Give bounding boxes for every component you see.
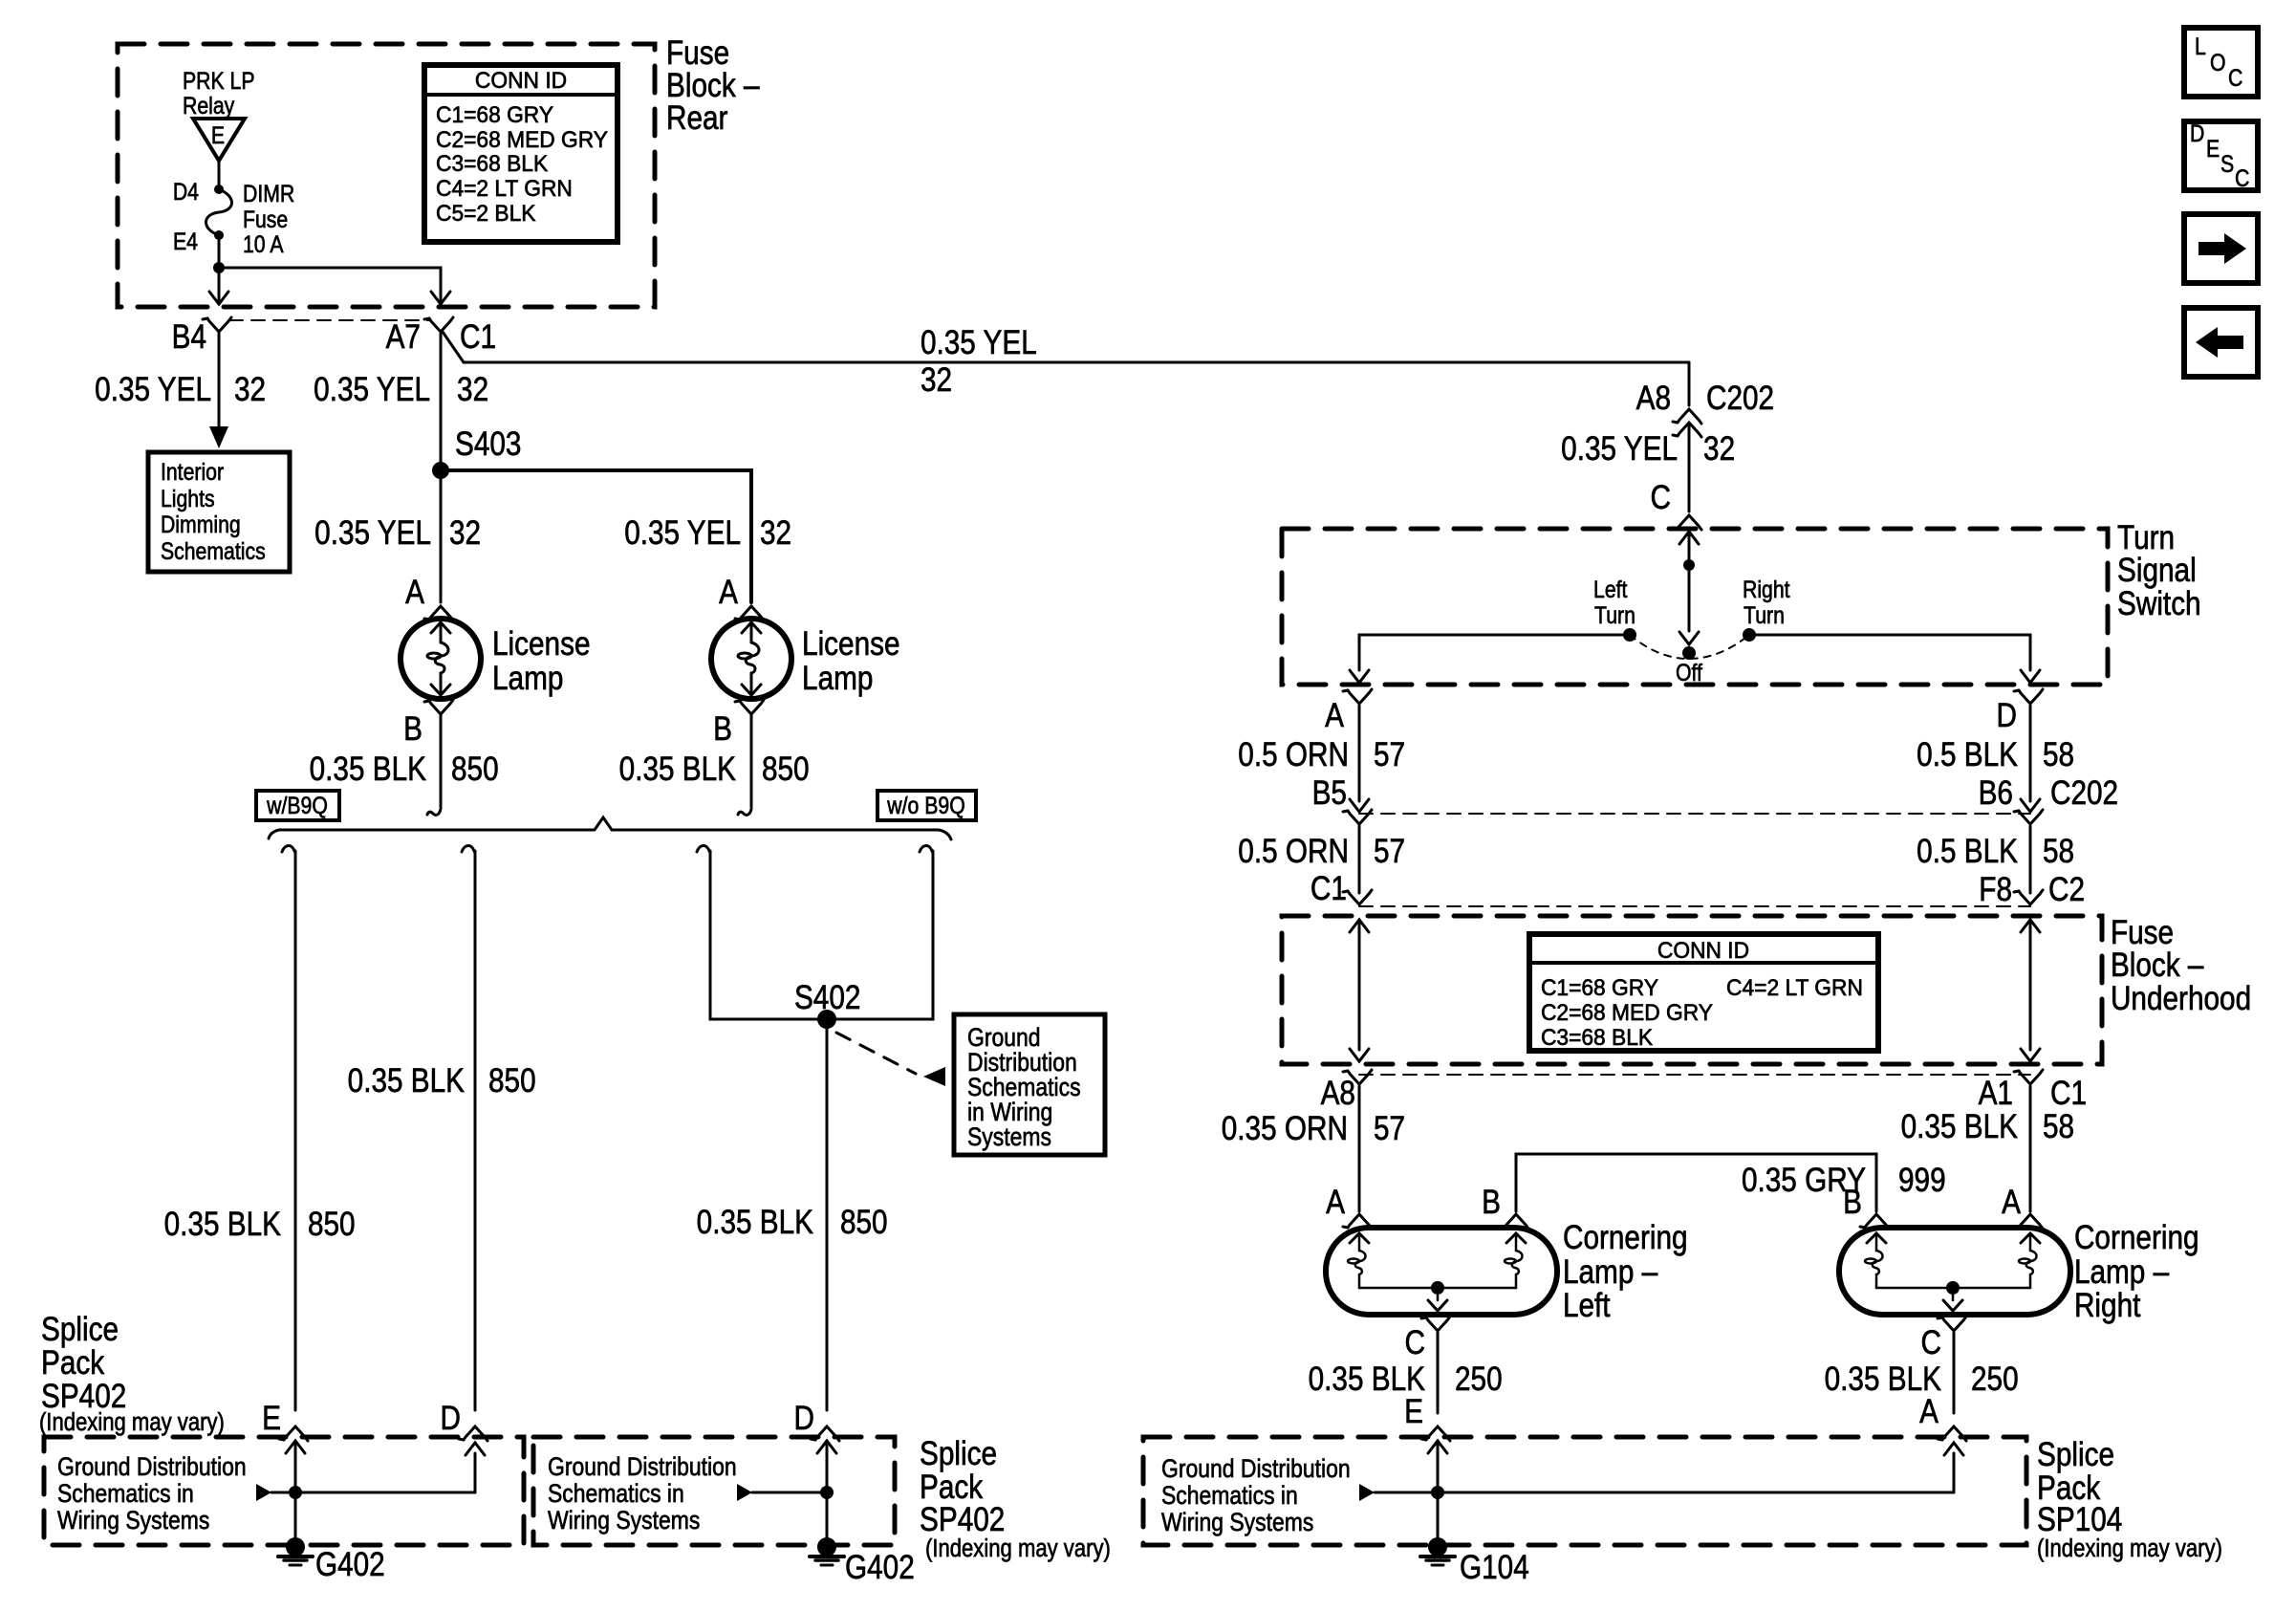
- wire w/o B9Q right branch to S402: [920, 846, 933, 853]
- chevron A8 below underhood: [1348, 1070, 1372, 1084]
- svg-text:C4=2 LT GRN: C4=2 LT GRN: [436, 175, 573, 201]
- wire B6 to C2 (fuse block underhood): [2029, 826, 2032, 893]
- svg-text:D: D: [2190, 120, 2204, 146]
- svg-text:G402: G402: [845, 1549, 915, 1586]
- pin A chevron (right box): [1942, 1426, 1966, 1441]
- svg-text:A: A: [719, 574, 738, 611]
- svg-text:250: 250: [1971, 1361, 2019, 1398]
- svg-text:Lights: Lights: [161, 485, 215, 512]
- svg-text:0.35 BLK: 0.35 BLK: [1825, 1361, 1942, 1398]
- ground distribution box middle (dashed): [533, 1437, 895, 1545]
- svg-text:C1: C1: [1310, 870, 1347, 907]
- wire cornering lamp B to B (gray): [1516, 1154, 1876, 1211]
- icon box LOC: [2184, 28, 2258, 97]
- label Splice Pack SP402 (middle): [920, 1435, 1111, 1563]
- svg-text:D: D: [441, 1400, 461, 1437]
- wire label 0.35 GRY 999: [1742, 1162, 1946, 1199]
- pin D chevron (middle box): [815, 1426, 839, 1441]
- splice S403: [432, 462, 449, 479]
- wire label 0.35 ORN 57: [1222, 1110, 1405, 1147]
- svg-text:32: 32: [457, 371, 488, 408]
- callout dashed pointer from S402: [836, 1033, 916, 1074]
- svg-text:E4: E4: [173, 228, 198, 254]
- splice S402: [817, 1010, 836, 1029]
- svg-text:CONN ID: CONN ID: [475, 67, 567, 93]
- wire lamp1 B down: [440, 714, 443, 807]
- switch wire right to D: [1749, 635, 2030, 670]
- svg-text:O: O: [2210, 49, 2226, 76]
- svg-text:F8: F8: [1979, 871, 2012, 908]
- svg-text:Lamp: Lamp: [492, 660, 563, 697]
- wire A1 to cornering lamp right A: [2029, 1086, 2032, 1211]
- cornering lamp right filament: [2021, 1233, 2040, 1243]
- svg-text:850: 850: [308, 1206, 356, 1243]
- svg-text:250: 250: [1455, 1361, 1503, 1398]
- svg-text:Left: Left: [1593, 576, 1628, 602]
- contact Right Turn: [1743, 628, 1756, 642]
- svg-text:Ground Distribution: Ground Distribution: [548, 1452, 737, 1481]
- wire w/o B9Q left branch to S402: [697, 846, 710, 853]
- svg-text:0.35 ORN: 0.35 ORN: [1222, 1110, 1348, 1147]
- svg-text:0.35 YEL: 0.35 YEL: [314, 371, 430, 408]
- label License Lamp 2: [802, 625, 900, 697]
- wire label 0.5 ORN 57 (lower): [1238, 833, 1405, 870]
- wire B5 to C1 (fuse block underhood): [1358, 826, 1361, 893]
- svg-text:Schematics in: Schematics in: [57, 1479, 194, 1508]
- svg-text:Splice: Splice: [2037, 1436, 2114, 1473]
- wire cornering left C down: [1437, 1333, 1440, 1413]
- svg-text:S403: S403: [455, 425, 521, 463]
- svg-text:0.35 YEL: 0.35 YEL: [624, 514, 741, 552]
- wire label 0.35 BLK 58: [1901, 1108, 2074, 1145]
- pin label B6 and connector C202: [1979, 774, 2118, 812]
- svg-text:C1=68 GRY: C1=68 GRY: [436, 101, 553, 127]
- svg-text:58: 58: [2043, 1108, 2074, 1145]
- wire C entering switch: [1679, 532, 1699, 544]
- wire label 0.35 BLK 250 (right): [1825, 1361, 2019, 1398]
- switch common arrow toward Off: [1688, 565, 1691, 631]
- label Fuse Block - Rear: [666, 34, 760, 137]
- ground distribution box right (dashed): [1143, 1437, 2026, 1545]
- ground G402 (left): [286, 1537, 305, 1557]
- svg-text:C202: C202: [1706, 380, 1774, 417]
- svg-text:58: 58: [2043, 833, 2074, 870]
- svg-text:Switch: Switch: [2117, 585, 2201, 622]
- svg-text:License: License: [802, 625, 900, 663]
- svg-text:B: B: [1843, 1184, 1862, 1221]
- svg-text:0.35 YEL: 0.35 YEL: [314, 514, 431, 552]
- svg-text:w/o B9Q: w/o B9Q: [886, 792, 964, 818]
- wire label 0.35 YEL 32 (lamp 2): [624, 514, 791, 552]
- pin A chevron cornering left: [1348, 1214, 1372, 1229]
- svg-text:Signal: Signal: [2117, 552, 2197, 589]
- svg-text:32: 32: [1703, 430, 1735, 468]
- svg-text:0.35 YEL: 0.35 YEL: [1561, 430, 1678, 468]
- svg-text:B6: B6: [1979, 774, 2013, 812]
- pin D chevron below switch: [2019, 689, 2043, 704]
- svg-text:Underhood: Underhood: [2111, 980, 2251, 1017]
- wire A down to C202 row: [1358, 706, 1361, 801]
- wire A8 to cornering lamp left A: [1358, 1086, 1361, 1211]
- svg-text:B: B: [1482, 1184, 1501, 1221]
- wire w/B9Q to splice pack E: [282, 846, 295, 853]
- label Cornering Lamp - Right: [2074, 1219, 2199, 1324]
- pin B chevron lamp 2: [740, 700, 764, 714]
- svg-text:Right: Right: [2074, 1287, 2140, 1324]
- wire long yellow feed down to C202: [1688, 362, 1691, 405]
- svg-text:Left: Left: [1563, 1287, 1611, 1324]
- svg-text:A: A: [405, 574, 424, 611]
- turn signal switch dashed outline: [1282, 529, 2108, 685]
- svg-text:10 A: 10 A: [243, 230, 284, 257]
- svg-text:A: A: [1919, 1393, 1939, 1430]
- wire label 0.35 YEL 32 (B4): [95, 371, 266, 408]
- svg-text:Schematics: Schematics: [161, 537, 266, 564]
- wire label 0.35 BLK 850 (S402 wire): [697, 1204, 888, 1241]
- wire E inside left box: [286, 1441, 305, 1453]
- cornering lamp right filament: [1867, 1233, 1886, 1243]
- svg-text:0.5 BLK: 0.5 BLK: [1917, 833, 2018, 870]
- svg-text:DIMR: DIMR: [243, 180, 294, 207]
- cornering lamp left common rail: [1359, 1287, 1516, 1290]
- label License Lamp 1: [492, 625, 591, 697]
- svg-text:Fuse: Fuse: [666, 34, 729, 72]
- chevron below C202 row left: [1348, 810, 1372, 824]
- arrowhead at B4 exit: [218, 292, 221, 304]
- wire label 0.35 BLK 250 (left): [1309, 1361, 1503, 1398]
- svg-text:Block –: Block –: [2111, 947, 2204, 984]
- svg-text:D: D: [1997, 697, 2017, 734]
- svg-text:B5: B5: [1312, 774, 1347, 812]
- svg-text:E: E: [1404, 1393, 1423, 1430]
- svg-text:Cornering: Cornering: [2074, 1219, 2199, 1256]
- wire C202 to turn signal switch: [1688, 425, 1691, 512]
- pin label F8 and connector C2: [1979, 871, 2085, 908]
- cornering lamp right common rail: [1876, 1287, 2030, 1290]
- wire label 0.35 BLK 850 (lamp1): [310, 751, 499, 788]
- connector chevron at B4: [207, 317, 231, 332]
- svg-text:G402: G402: [315, 1546, 385, 1583]
- pin D chevron (left box): [464, 1426, 487, 1441]
- svg-text:Lamp –: Lamp –: [1563, 1253, 1658, 1291]
- wire cornering right C down: [1953, 1333, 1956, 1413]
- svg-text:SP104: SP104: [2037, 1501, 2122, 1538]
- connector line C1 (thin dashed between B4 and A7): [229, 319, 430, 321]
- pin C chevron cornering right: [1942, 1317, 1966, 1331]
- ground distribution box left (dashed): [44, 1437, 524, 1545]
- svg-text:0.35 BLK: 0.35 BLK: [310, 751, 427, 788]
- wire A7 elbow to long yellow feed: [443, 332, 1689, 362]
- cornering lamp right body: [1839, 1228, 2070, 1315]
- svg-text:0.35 YEL: 0.35 YEL: [921, 324, 1037, 361]
- svg-text:Lamp: Lamp: [802, 660, 873, 697]
- svg-text:A7: A7: [386, 318, 421, 356]
- wire A7 down to S403: [440, 334, 443, 470]
- svg-text:C2=68 MED GRY: C2=68 MED GRY: [1541, 999, 1713, 1025]
- svg-text:C: C: [1651, 479, 1671, 516]
- svg-text:C: C: [2228, 64, 2242, 91]
- license lamp 2: [711, 619, 791, 699]
- svg-text:C202: C202: [2050, 774, 2118, 812]
- svg-text:B: B: [403, 710, 422, 748]
- svg-text:w/B9Q: w/B9Q: [266, 792, 328, 818]
- chevron below C202 row right: [2019, 810, 2043, 824]
- option label w/o B9Q: [877, 791, 976, 820]
- connector C202 double chevron at A8: [1678, 409, 1701, 424]
- wire branch to A7: [219, 268, 441, 292]
- svg-text:32: 32: [921, 361, 952, 399]
- pin B chevron cornering right: [1865, 1214, 1889, 1229]
- svg-text:CONN ID: CONN ID: [1657, 937, 1749, 963]
- svg-text:L: L: [2195, 33, 2206, 59]
- pin A chevron lamp 1: [429, 606, 453, 620]
- svg-text:Turn: Turn: [2117, 519, 2175, 556]
- switch wire left to A: [1359, 635, 1630, 670]
- svg-text:58: 58: [2043, 736, 2074, 773]
- connector chevron at A7: [429, 317, 453, 332]
- svg-text:A: A: [1325, 697, 1344, 734]
- wire label 0.5 ORN 57 (upper): [1238, 736, 1405, 773]
- svg-text:(Indexing may vary): (Indexing may vary): [925, 1535, 1111, 1562]
- svg-text:License: License: [492, 625, 591, 663]
- svg-text:S: S: [2220, 150, 2234, 177]
- svg-text:C5=2 BLK: C5=2 BLK: [436, 200, 536, 226]
- svg-text:Turn: Turn: [1594, 601, 1635, 628]
- dashed wiper arc: [1630, 635, 1749, 659]
- svg-text:G104: G104: [1460, 1549, 1529, 1586]
- junction below fuse: [213, 262, 225, 273]
- svg-text:Right: Right: [1743, 576, 1790, 602]
- label Splice Pack SP402 (left): [39, 1311, 225, 1437]
- svg-text:57: 57: [1374, 833, 1405, 870]
- junction in switch: [1683, 559, 1695, 571]
- option label w/B9Q: [256, 791, 339, 820]
- svg-text:Pack: Pack: [920, 1469, 984, 1506]
- svg-text:C2=68 MED GRY: C2=68 MED GRY: [436, 126, 608, 152]
- wire S403 down to first license lamp: [440, 470, 443, 602]
- wire w/B9Q to splice pack D: [462, 846, 475, 853]
- svg-text:57: 57: [1374, 736, 1405, 773]
- svg-text:S402: S402: [794, 979, 860, 1016]
- svg-text:B: B: [713, 710, 732, 748]
- svg-text:Off: Off: [1676, 659, 1702, 686]
- cornering lamp left body: [1326, 1228, 1557, 1315]
- ground G402 (middle): [817, 1537, 836, 1557]
- label Turn Signal Switch: [2117, 519, 2201, 622]
- riser A with arrow (right box): [1953, 1453, 1956, 1492]
- svg-text:C2: C2: [2048, 871, 2085, 908]
- wire label 0.35 YEL 32 (C202): [1561, 430, 1735, 468]
- svg-text:A8: A8: [1321, 1075, 1355, 1112]
- svg-text:Interior: Interior: [161, 458, 224, 485]
- wire S402 down to splice pack D: [826, 1019, 829, 1410]
- svg-text:Turn: Turn: [1744, 601, 1785, 628]
- svg-text:Rear: Rear: [666, 99, 728, 137]
- wire lamp2 B down: [750, 714, 753, 807]
- svg-text:999: 999: [1898, 1162, 1946, 1199]
- pin C chevron at turn signal switch: [1678, 515, 1701, 530]
- wire label 0.5 BLK 58 (lower): [1917, 833, 2074, 870]
- svg-text:32: 32: [234, 371, 266, 408]
- svg-text:850: 850: [762, 751, 810, 788]
- node E4: [214, 230, 224, 240]
- label Splice Pack SP104 (right): [2037, 1436, 2222, 1563]
- svg-text:SP402: SP402: [920, 1501, 1005, 1538]
- svg-text:0.5 ORN: 0.5 ORN: [1238, 736, 1349, 773]
- svg-text:0.35 BLK: 0.35 BLK: [619, 751, 737, 788]
- svg-text:B4: B4: [172, 318, 206, 356]
- svg-text:0.5 BLK: 0.5 BLK: [1917, 736, 2018, 773]
- wire E inside right box: [1428, 1441, 1447, 1453]
- svg-text:Block –: Block –: [666, 67, 760, 104]
- svg-text:Fuse: Fuse: [2111, 914, 2174, 951]
- svg-text:C1: C1: [460, 318, 496, 356]
- svg-text:C1=68 GRY: C1=68 GRY: [1541, 974, 1658, 1000]
- svg-text:Ground Distribution: Ground Distribution: [57, 1452, 247, 1481]
- callout arrow left box: [256, 1484, 271, 1501]
- svg-text:C: C: [1921, 1324, 1941, 1361]
- connector line C202 (thin dashed): [1359, 813, 2030, 815]
- icon box right arrow: [2184, 214, 2258, 283]
- wire main to B4: [218, 268, 221, 292]
- svg-text:Dimming: Dimming: [161, 511, 241, 537]
- cornering lamp left filament: [1350, 1233, 1369, 1243]
- wire through underhood right: [2021, 920, 2040, 932]
- svg-text:850: 850: [488, 1062, 536, 1099]
- svg-text:0.35 BLK: 0.35 BLK: [697, 1204, 814, 1241]
- wire through underhood left: [1350, 920, 1369, 932]
- svg-text:E: E: [211, 121, 225, 148]
- svg-text:0.35 BLK: 0.35 BLK: [1901, 1108, 2019, 1145]
- Interior Lights Dimming Schematics box: [148, 452, 290, 572]
- svg-text:Lamp –: Lamp –: [2074, 1253, 2170, 1291]
- svg-text:Relay: Relay: [183, 92, 235, 119]
- wire label 0.35 YEL 32 (lamp 1): [314, 514, 481, 552]
- svg-text:57: 57: [1374, 1110, 1405, 1147]
- wire label 0.5 BLK 58 (upper): [1917, 736, 2074, 773]
- svg-text:Schematics in: Schematics in: [1161, 1481, 1298, 1510]
- pin C chevron cornering left: [1426, 1317, 1450, 1331]
- svg-text:0.5 ORN: 0.5 ORN: [1238, 833, 1349, 870]
- svg-text:850: 850: [451, 751, 499, 788]
- fuse block - underhood dashed outline: [1282, 916, 2102, 1064]
- brace joining option wires: [269, 817, 951, 839]
- svg-text:Ground Distribution: Ground Distribution: [1161, 1454, 1351, 1483]
- svg-text:(Indexing may vary): (Indexing may vary): [39, 1408, 225, 1436]
- svg-text:D: D: [794, 1400, 814, 1437]
- svg-text:Splice: Splice: [920, 1435, 997, 1472]
- label Fuse Block - Underhood: [2111, 914, 2251, 1017]
- svg-text:PRK LP: PRK LP: [183, 67, 255, 94]
- relay PRK LP label: [183, 67, 255, 119]
- pin E chevron (left box): [284, 1426, 308, 1441]
- wire D down to C202 row: [2029, 706, 2032, 801]
- contact Off: [1682, 646, 1696, 660]
- svg-text:Splice: Splice: [41, 1311, 119, 1348]
- wire label 0.35 BLK 850 (E wire): [164, 1206, 356, 1243]
- pin B chevron cornering left: [1505, 1214, 1528, 1229]
- cornering lamp left filament: [1506, 1233, 1526, 1243]
- svg-text:0.35 BLK: 0.35 BLK: [348, 1062, 466, 1099]
- svg-text:C1: C1: [2050, 1075, 2087, 1112]
- pin B chevron lamp 1: [429, 700, 453, 714]
- svg-text:C4=2 LT GRN: C4=2 LT GRN: [1726, 974, 1863, 1000]
- svg-text:Wiring Systems: Wiring Systems: [57, 1506, 209, 1535]
- pin label A1 and connector C1: [1979, 1075, 2087, 1112]
- svg-text:C3=68 BLK: C3=68 BLK: [436, 150, 549, 176]
- callout arrow middle box: [737, 1484, 752, 1501]
- connector line C1/C2 (thin dashed): [1359, 905, 2030, 907]
- svg-text:Pack: Pack: [41, 1344, 105, 1382]
- chevron A1/C1 below underhood: [2019, 1070, 2043, 1084]
- svg-text:32: 32: [760, 514, 791, 552]
- icon box left arrow: [2184, 308, 2258, 377]
- svg-text:C: C: [2235, 164, 2249, 191]
- svg-text:D4: D4: [173, 178, 199, 205]
- wire B4 down to Interior Lights: [218, 334, 221, 426]
- callout box Ground Distribution Schematics in Wiring Systems: [954, 1014, 1105, 1155]
- svg-text:Fuse: Fuse: [243, 206, 288, 232]
- svg-text:32: 32: [449, 514, 481, 552]
- svg-text:E: E: [262, 1400, 281, 1437]
- wire label 0.35 BLK 850 (D wire): [348, 1062, 536, 1099]
- pin E chevron (right box): [1426, 1426, 1450, 1441]
- license lamp 1: [401, 619, 481, 699]
- relay PRK LP triangle (coil E): [193, 119, 245, 161]
- svg-text:C3=68 BLK: C3=68 BLK: [1541, 1024, 1654, 1050]
- svg-text:850: 850: [840, 1204, 888, 1241]
- wire D inside middle box: [817, 1441, 836, 1453]
- fuse DIMR 10A element: [206, 189, 232, 235]
- wire label 0.35 BLK 850 (lamp2): [619, 751, 810, 788]
- pin A chevron below switch: [1348, 689, 1372, 704]
- svg-text:Cornering: Cornering: [1563, 1219, 1688, 1256]
- svg-text:0.35 YEL: 0.35 YEL: [95, 371, 211, 408]
- wire label 0.35 YEL 32 (long feed): [921, 324, 1037, 399]
- svg-text:A: A: [1326, 1184, 1345, 1221]
- wire label 0.35 YEL 32 (A7): [314, 371, 488, 408]
- wire relay to fuse D4: [218, 161, 221, 189]
- svg-text:0.35 BLK: 0.35 BLK: [1309, 1361, 1426, 1398]
- icon box DESC: [2184, 120, 2258, 191]
- node D4: [214, 185, 224, 194]
- svg-text:Systems: Systems: [967, 1122, 1051, 1151]
- svg-text:(Indexing may vary): (Indexing may vary): [2037, 1535, 2222, 1562]
- svg-text:C: C: [1405, 1324, 1425, 1361]
- wire to D riser (left box): [271, 1491, 475, 1494]
- svg-text:0.35 BLK: 0.35 BLK: [164, 1206, 282, 1243]
- svg-text:A: A: [2002, 1184, 2021, 1221]
- arrowhead at A7 exit: [440, 292, 443, 304]
- svg-text:Wiring Systems: Wiring Systems: [1161, 1508, 1313, 1536]
- riser D with arrow (left box): [474, 1453, 477, 1492]
- CONN ID table (fuse block underhood): [1529, 934, 1878, 1051]
- fuse block - rear dashed outline: [118, 44, 655, 307]
- solid arrowhead into Interior Lights box: [209, 426, 228, 448]
- callout arrow right box: [1359, 1484, 1375, 1501]
- contact Left Turn: [1623, 628, 1636, 642]
- svg-text:A8: A8: [1636, 380, 1671, 417]
- wire S403 to second license lamp: [441, 470, 751, 602]
- ground G104: [1428, 1537, 1447, 1557]
- svg-text:E: E: [2206, 135, 2220, 162]
- svg-text:Wiring Systems: Wiring Systems: [548, 1506, 700, 1535]
- pin A chevron cornering right: [2019, 1214, 2043, 1229]
- svg-text:A1: A1: [1979, 1075, 2013, 1112]
- wire E4 down: [218, 235, 221, 268]
- svg-text:Schematics in: Schematics in: [548, 1479, 684, 1508]
- CONN ID table (fuse block rear): [424, 65, 617, 242]
